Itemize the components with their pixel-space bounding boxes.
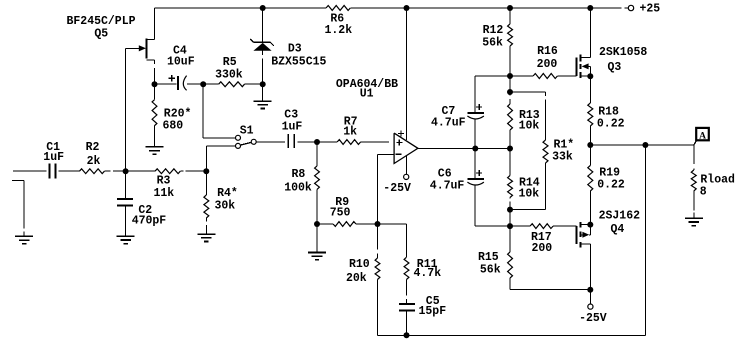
svg-text:56k: 56k xyxy=(482,37,503,50)
svg-text:56k: 56k xyxy=(480,264,501,277)
svg-text:-25V: -25V xyxy=(383,182,411,195)
svg-text:2SK1058: 2SK1058 xyxy=(599,46,647,59)
svg-text:10k: 10k xyxy=(519,188,540,201)
svg-text:11k: 11k xyxy=(154,187,175,200)
svg-text:2SJ162: 2SJ162 xyxy=(599,210,641,223)
svg-text:R15: R15 xyxy=(478,251,499,264)
svg-text:U1: U1 xyxy=(360,88,374,101)
svg-text:D3: D3 xyxy=(288,42,302,55)
svg-text:4.7uF: 4.7uF xyxy=(431,117,466,130)
svg-text:1uF: 1uF xyxy=(43,151,64,164)
svg-text:1k: 1k xyxy=(343,126,357,139)
svg-text:200: 200 xyxy=(532,242,553,255)
svg-text:Q4: Q4 xyxy=(611,223,625,236)
svg-text:Rload: Rload xyxy=(700,174,735,187)
svg-text:BF245C/PLP: BF245C/PLP xyxy=(67,15,136,28)
svg-text:33k: 33k xyxy=(552,150,573,163)
svg-text:4.7uF: 4.7uF xyxy=(430,180,465,193)
svg-text:1.2k: 1.2k xyxy=(325,24,353,37)
svg-text:20k: 20k xyxy=(346,272,367,285)
svg-text:4.7k: 4.7k xyxy=(414,267,442,280)
svg-text:2k: 2k xyxy=(87,155,101,168)
svg-text:R3: R3 xyxy=(157,174,171,187)
svg-text:BZX55C15: BZX55C15 xyxy=(271,56,326,69)
svg-text:680: 680 xyxy=(163,119,184,132)
svg-text:0.22: 0.22 xyxy=(597,178,625,191)
svg-text:R10: R10 xyxy=(349,258,370,271)
svg-text:470pF: 470pF xyxy=(132,215,167,228)
svg-text:R8: R8 xyxy=(292,168,306,181)
svg-text:R16: R16 xyxy=(537,45,558,58)
svg-text:100k: 100k xyxy=(284,182,312,195)
svg-text:Q3: Q3 xyxy=(608,61,622,74)
svg-text:200: 200 xyxy=(537,58,558,71)
svg-text:330k: 330k xyxy=(215,69,243,82)
svg-text:R2: R2 xyxy=(86,141,100,154)
svg-text:10uF: 10uF xyxy=(167,56,195,69)
svg-text:10k: 10k xyxy=(519,120,540,133)
svg-text:750: 750 xyxy=(330,207,351,220)
svg-text:8: 8 xyxy=(700,186,707,199)
svg-text:30k: 30k xyxy=(215,200,236,213)
svg-text:-25V: -25V xyxy=(579,312,607,325)
svg-text:1uF: 1uF xyxy=(282,121,303,134)
svg-text:A: A xyxy=(699,131,706,141)
svg-text:0.22: 0.22 xyxy=(597,117,625,130)
svg-text:S1: S1 xyxy=(240,125,254,138)
svg-text:15pF: 15pF xyxy=(419,305,447,318)
svg-text:R5: R5 xyxy=(223,56,237,69)
svg-text:+25: +25 xyxy=(640,3,661,16)
svg-text:R4*: R4* xyxy=(217,187,238,200)
svg-text:Q5: Q5 xyxy=(94,27,108,40)
svg-text:R12: R12 xyxy=(483,24,504,37)
